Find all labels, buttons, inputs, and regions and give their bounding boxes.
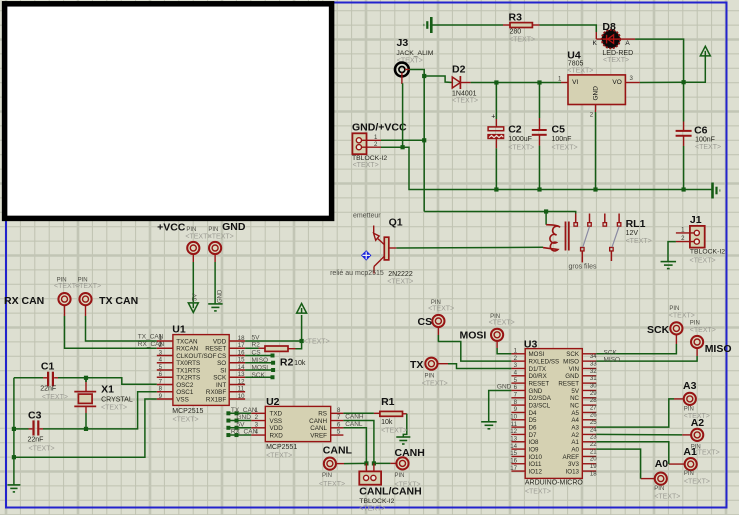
svg-text:VO: VO (612, 79, 621, 86)
svg-text:TX2RTS: TX2RTS (176, 375, 200, 382)
svg-text:CANL: CANL (345, 421, 363, 428)
svg-text:PIN: PIN (425, 374, 435, 380)
svg-text:1000uF: 1000uF (508, 136, 532, 143)
svg-text:R1: R1 (381, 396, 395, 408)
svg-text:14: 14 (510, 443, 517, 450)
svg-text:RXD: RXD (270, 432, 284, 439)
svg-text:TXD: TXD (270, 411, 283, 418)
svg-text:VI: VI (572, 79, 578, 86)
svg-text:<TEXT>: <TEXT> (359, 506, 385, 513)
svg-text:<TEXT>: <TEXT> (173, 417, 199, 424)
svg-text:D7: D7 (529, 432, 537, 439)
svg-text:MISO: MISO (705, 343, 732, 355)
svg-text:ARDUINO-MICRO: ARDUINO-MICRO (525, 480, 583, 487)
svg-text:MOSI: MOSI (252, 364, 269, 371)
svg-text:D5: D5 (529, 417, 537, 424)
svg-text:<TEXT>: <TEXT> (695, 144, 721, 151)
svg-text:<TEXT>: <TEXT> (42, 394, 68, 401)
svg-text:RESET: RESET (558, 381, 579, 388)
svg-text:C1: C1 (41, 360, 55, 372)
svg-text:5V: 5V (571, 388, 579, 395)
svg-text:12: 12 (238, 378, 245, 385)
svg-text:MISO: MISO (252, 357, 269, 364)
svg-text:CS: CS (252, 350, 262, 357)
svg-text:SCK: SCK (252, 372, 266, 379)
svg-text:SCK: SCK (647, 324, 670, 336)
svg-text:PIN: PIN (669, 306, 679, 312)
svg-text:100nF: 100nF (695, 136, 715, 143)
svg-text:<TEXT>: <TEXT> (452, 98, 478, 105)
svg-text:C3: C3 (28, 409, 42, 421)
svg-text:RX_CAN: RX_CAN (231, 429, 258, 436)
svg-text:<TEXT>: <TEXT> (654, 493, 680, 500)
svg-text:PIN: PIN (322, 473, 332, 479)
svg-text:GND/+VCC: GND/+VCC (352, 121, 407, 133)
svg-text:CLKOUT/SOF: CLKOUT/SOF (176, 353, 216, 360)
svg-text:1N4001: 1N4001 (452, 90, 477, 97)
svg-text:TX: TX (410, 359, 423, 371)
svg-text:MISO: MISO (604, 357, 621, 364)
svg-text:5V: 5V (192, 294, 198, 301)
svg-text:CANL: CANL (323, 444, 353, 456)
svg-text:NC: NC (570, 403, 579, 410)
svg-text:A2: A2 (571, 432, 579, 439)
svg-text:VDD: VDD (270, 425, 284, 432)
svg-text:<TEXT>: <TEXT> (422, 381, 448, 388)
svg-text:TBLOCK-I2: TBLOCK-I2 (359, 498, 394, 505)
svg-text:2N2222: 2N2222 (388, 271, 413, 278)
svg-text:IO13: IO13 (566, 468, 580, 475)
svg-text:PIN: PIN (684, 407, 694, 413)
svg-text:A0: A0 (655, 458, 669, 470)
svg-text:24: 24 (590, 426, 597, 433)
svg-text:CANL: CANL (310, 425, 327, 432)
svg-text:13: 13 (238, 371, 245, 378)
svg-text:D0/RX: D0/RX (529, 373, 547, 380)
svg-text:18: 18 (590, 470, 597, 477)
svg-text:CS: CS (418, 316, 433, 328)
svg-text:PIN: PIN (654, 486, 664, 492)
svg-text:VSS: VSS (270, 418, 283, 425)
svg-text:D2/SDA: D2/SDA (529, 395, 552, 402)
svg-text:20: 20 (590, 456, 597, 463)
svg-text:A4: A4 (571, 417, 579, 424)
svg-text:21: 21 (590, 448, 597, 455)
svg-text:OSC2: OSC2 (176, 382, 194, 389)
svg-text:27: 27 (590, 404, 597, 411)
svg-text:RXLED/SS: RXLED/SS (529, 359, 560, 366)
svg-text:TX1RTS: TX1RTS (176, 367, 200, 374)
svg-text:GND: GND (218, 289, 224, 303)
svg-text:RX1BF: RX1BF (206, 396, 226, 403)
svg-text:31: 31 (590, 375, 597, 382)
svg-text:U1: U1 (172, 324, 186, 336)
svg-text:GND: GND (497, 384, 512, 391)
svg-text:22: 22 (590, 441, 597, 448)
svg-text:TX0RTS: TX0RTS (176, 360, 200, 367)
svg-text:10k: 10k (381, 419, 393, 426)
svg-text:K: K (593, 40, 598, 47)
svg-text:GND: GND (237, 414, 252, 421)
svg-text:<TEXT>: <TEXT> (208, 234, 234, 241)
svg-text:29: 29 (590, 390, 597, 397)
svg-text:A1: A1 (683, 446, 697, 458)
svg-text:TBLOCK-I2: TBLOCK-I2 (690, 249, 725, 256)
svg-text:C5: C5 (552, 124, 566, 136)
svg-text:D6: D6 (529, 425, 537, 432)
svg-text:<TEXT>: <TEXT> (266, 453, 292, 460)
svg-text:VSS: VSS (176, 396, 189, 403)
svg-text:J3: J3 (397, 37, 409, 49)
svg-text:<TEXT>: <TEXT> (690, 327, 716, 334)
svg-text:RS: RS (318, 411, 327, 418)
svg-text:<TEXT>: <TEXT> (75, 283, 101, 290)
svg-text:30: 30 (590, 382, 597, 389)
svg-text:32: 32 (590, 368, 597, 375)
svg-text:X1: X1 (101, 384, 114, 396)
svg-text:10: 10 (238, 393, 245, 400)
svg-text:OSC1: OSC1 (176, 389, 194, 396)
svg-text:<TEXT>: <TEXT> (29, 446, 55, 453)
svg-text:<TEXT>: <TEXT> (690, 257, 716, 264)
svg-text:<TEXT>: <TEXT> (319, 481, 345, 488)
svg-text:15: 15 (510, 450, 517, 457)
svg-text:23: 23 (590, 434, 597, 441)
svg-text:J1: J1 (690, 214, 702, 226)
svg-text:Q1: Q1 (389, 217, 403, 229)
svg-text:SI: SI (220, 367, 226, 374)
svg-text:28: 28 (590, 397, 597, 404)
svg-text:RXCAN: RXCAN (176, 346, 198, 353)
svg-text:11: 11 (511, 421, 518, 428)
svg-text:15: 15 (238, 357, 245, 364)
svg-text:MOSI: MOSI (460, 330, 487, 342)
svg-text:C6: C6 (694, 124, 708, 136)
svg-text:MISO: MISO (563, 359, 579, 366)
svg-text:SCK: SCK (213, 375, 227, 382)
svg-text:A0: A0 (571, 446, 579, 453)
svg-text:D8: D8 (602, 21, 616, 33)
svg-text:<TEXT>: <TEXT> (101, 404, 127, 411)
svg-text:A3: A3 (683, 380, 697, 392)
svg-text:PIN: PIN (208, 227, 218, 233)
svg-text:emetteur: emetteur (353, 212, 381, 219)
svg-text:PIN: PIN (395, 473, 405, 479)
svg-text:NC: NC (570, 395, 579, 402)
svg-text:280: 280 (510, 29, 522, 36)
svg-text:R2: R2 (280, 357, 294, 369)
svg-text:5V: 5V (252, 334, 261, 341)
svg-text:12: 12 (510, 428, 517, 435)
svg-text:<TEXT>: <TEXT> (603, 57, 629, 64)
svg-text:<TEXT>: <TEXT> (694, 449, 720, 456)
svg-text:PIN: PIN (690, 320, 700, 326)
svg-text:PIN: PIN (186, 227, 196, 233)
svg-text:IO12: IO12 (529, 468, 543, 475)
svg-text:<TEXT>: <TEXT> (567, 67, 593, 74)
svg-text:D3/SCL: D3/SCL (529, 403, 551, 410)
svg-text:D4: D4 (529, 410, 537, 417)
svg-text:GND: GND (593, 86, 600, 101)
svg-text:22nF: 22nF (28, 437, 44, 444)
svg-text:IO11: IO11 (529, 461, 543, 468)
svg-text:<TEXT>: <TEXT> (509, 37, 535, 44)
svg-text:19: 19 (590, 463, 597, 470)
svg-text:18: 18 (238, 335, 245, 342)
svg-text:<TEXT>: <TEXT> (489, 320, 515, 327)
svg-text:<TEXT>: <TEXT> (353, 162, 379, 169)
svg-text:GND: GND (529, 388, 543, 395)
svg-text:<TEXT>: <TEXT> (525, 488, 551, 495)
svg-text:+VCC: +VCC (157, 222, 186, 234)
svg-text:RESET: RESET (529, 381, 550, 388)
svg-text:TX CAN: TX CAN (99, 295, 138, 307)
svg-text:VIN: VIN (569, 366, 579, 373)
svg-text:MOSI: MOSI (529, 351, 545, 358)
svg-text:26: 26 (590, 412, 597, 419)
svg-text:RL1: RL1 (626, 218, 646, 230)
svg-text:SCK: SCK (604, 349, 618, 356)
svg-text:RX CAN: RX CAN (4, 295, 44, 307)
svg-text:C2: C2 (508, 124, 522, 136)
svg-text:RESET: RESET (205, 346, 226, 353)
svg-text:<TEXT>: <TEXT> (669, 312, 695, 319)
svg-text:LED-RED: LED-RED (602, 50, 633, 57)
svg-text:R3: R3 (509, 12, 523, 24)
svg-text:17: 17 (238, 342, 245, 349)
svg-text:IO8: IO8 (529, 439, 540, 446)
svg-text:U3: U3 (524, 338, 538, 350)
svg-text:gros files: gros files (569, 264, 598, 271)
svg-text:A3: A3 (571, 425, 579, 432)
svg-text:<TEXT>: <TEXT> (552, 144, 578, 151)
svg-text:MCP2515: MCP2515 (172, 408, 203, 415)
svg-text:TX_CAN: TX_CAN (231, 407, 257, 414)
svg-text:<TEXT>: <TEXT> (387, 279, 413, 286)
svg-text:14: 14 (238, 364, 245, 371)
svg-text:RX0BF: RX0BF (206, 389, 226, 396)
svg-text:2: 2 (590, 112, 594, 119)
svg-text:12V: 12V (626, 230, 639, 237)
svg-text:SO: SO (217, 360, 226, 367)
svg-text:10: 10 (510, 413, 517, 420)
svg-text:<TEXT>: <TEXT> (381, 428, 407, 435)
svg-text:16: 16 (510, 457, 517, 464)
svg-text:5V: 5V (237, 422, 246, 429)
svg-text:<TEXT>: <TEXT> (508, 144, 534, 151)
svg-text:MCP2551: MCP2551 (266, 444, 297, 451)
svg-text:13: 13 (510, 435, 517, 442)
svg-text:11: 11 (238, 386, 245, 393)
svg-text:TBLOCK-I2: TBLOCK-I2 (352, 155, 387, 162)
svg-text:34: 34 (590, 353, 597, 360)
svg-text:CANH: CANH (345, 413, 364, 420)
svg-text:17: 17 (510, 465, 517, 472)
svg-text:D1/TX: D1/TX (529, 366, 547, 373)
svg-text:<TEXT>: <TEXT> (684, 478, 710, 485)
svg-text:INT: INT (216, 382, 226, 389)
svg-text:relié au mcp2515: relié au mcp2515 (330, 270, 384, 277)
svg-text:CS: CS (217, 353, 226, 360)
svg-text:GND: GND (222, 221, 246, 233)
svg-text:R2: R2 (252, 342, 261, 349)
svg-text:A2: A2 (691, 417, 705, 429)
svg-text:VREF: VREF (310, 432, 327, 439)
svg-text:PIN: PIN (684, 471, 694, 477)
svg-text:+: + (491, 114, 495, 121)
svg-text:A1: A1 (571, 439, 579, 446)
svg-text:D2: D2 (452, 64, 466, 76)
svg-text:7805: 7805 (568, 60, 584, 67)
svg-text:10k: 10k (294, 360, 306, 367)
svg-text:CANH: CANH (309, 418, 327, 425)
svg-text:<TEXT>: <TEXT> (428, 305, 454, 312)
svg-text:100nF: 100nF (552, 136, 572, 143)
svg-text:A5: A5 (571, 410, 579, 417)
svg-text:A: A (625, 40, 630, 47)
svg-text:SCK: SCK (566, 351, 580, 358)
svg-text:JACK_ALIM: JACK_ALIM (396, 50, 433, 57)
svg-text:<TEXT>: <TEXT> (304, 339, 330, 346)
svg-text:22nF: 22nF (40, 386, 56, 393)
svg-text:TXCAN: TXCAN (176, 338, 198, 345)
svg-text:16: 16 (238, 349, 245, 356)
svg-text:IO10: IO10 (529, 454, 543, 461)
svg-text:U2: U2 (266, 396, 280, 408)
svg-text:<TEXT>: <TEXT> (626, 238, 652, 245)
svg-text:CRYSTAL: CRYSTAL (101, 396, 133, 403)
svg-text:3V3: 3V3 (568, 461, 580, 468)
svg-text:25: 25 (590, 419, 597, 426)
svg-text:IO9: IO9 (529, 446, 540, 453)
svg-text:VDD: VDD (213, 338, 227, 345)
svg-text:33: 33 (590, 360, 597, 367)
svg-text:AREF: AREF (562, 454, 579, 461)
svg-text:CANL/CANH: CANL/CANH (359, 485, 421, 497)
svg-text:GND: GND (565, 373, 579, 380)
